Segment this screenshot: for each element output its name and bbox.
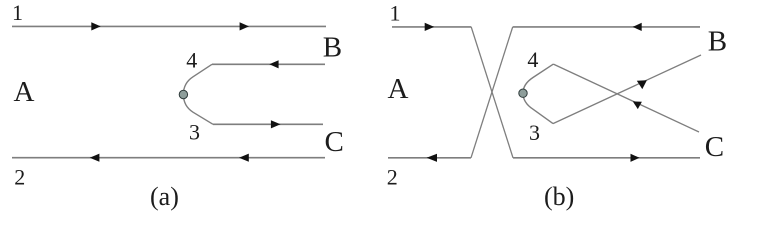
node dot fig b [519, 89, 527, 97]
arrow right on bottom-right line fig b [631, 154, 640, 162]
arrow right on top line fig a (second) [240, 22, 249, 30]
wire: line from 4 to C (descending) fig b [553, 64, 699, 132]
svg-text:4: 4 [527, 47, 538, 72]
wire: B line fig a [212, 63, 325, 65]
wire: C line fig a [213, 123, 323, 125]
wire: bottom-right line fig b [513, 157, 700, 159]
svg-text:A: A [388, 73, 409, 105]
arrow left on bottom-left line fig b [427, 154, 437, 162]
arrow right on top line fig a (first) [91, 22, 100, 30]
svg-text:C: C [325, 126, 344, 158]
wire: bottom line fig a [12, 157, 325, 159]
wire: top-right line fig b [513, 26, 700, 28]
svg-text:3: 3 [189, 119, 200, 144]
arrow right on top-left line fig b [425, 23, 435, 31]
svg-text:2: 2 [14, 165, 25, 190]
arrow right on C line fig a [271, 120, 281, 128]
wire: crossing diagonal (top-right to bottom-left) fig b [471, 27, 513, 158]
svg-text:B: B [323, 31, 342, 63]
svg-text:C: C [705, 131, 724, 163]
svg-text:(a): (a) [150, 182, 179, 211]
svg-text:(b): (b) [544, 182, 574, 211]
wire: top line fig a [12, 25, 326, 27]
arrow left on bottom line fig a (second) [239, 154, 249, 162]
wire: crossing diagonal (top-left to bottom-right) fig b [471, 27, 513, 158]
hairpin curve (fold) fig a [183, 64, 213, 124]
arrow left on bottom line fig a (first) [90, 154, 100, 162]
arrow left on top-right line fig b [633, 23, 642, 31]
wire: line from 3 to B (ascending) fig b [553, 55, 701, 124]
svg-text:4: 4 [186, 47, 197, 72]
hairpin curve (fold) fig b [523, 64, 553, 124]
svg-text:A: A [14, 76, 35, 108]
svg-text:2: 2 [387, 165, 398, 190]
arrow on 3-B line fig b (points down) [637, 80, 647, 89]
svg-text:3: 3 [529, 120, 540, 145]
svg-text:1: 1 [390, 1, 401, 26]
node dot fig a [179, 90, 187, 98]
svg-text:1: 1 [12, 0, 23, 25]
svg-text:B: B [708, 25, 727, 57]
arrow on 4-C line fig b (points down) [633, 101, 642, 109]
arrow left on B line fig a [269, 60, 278, 68]
wire: bottom-left line fig b [388, 157, 471, 159]
wire: top-left line fig b [392, 26, 471, 28]
